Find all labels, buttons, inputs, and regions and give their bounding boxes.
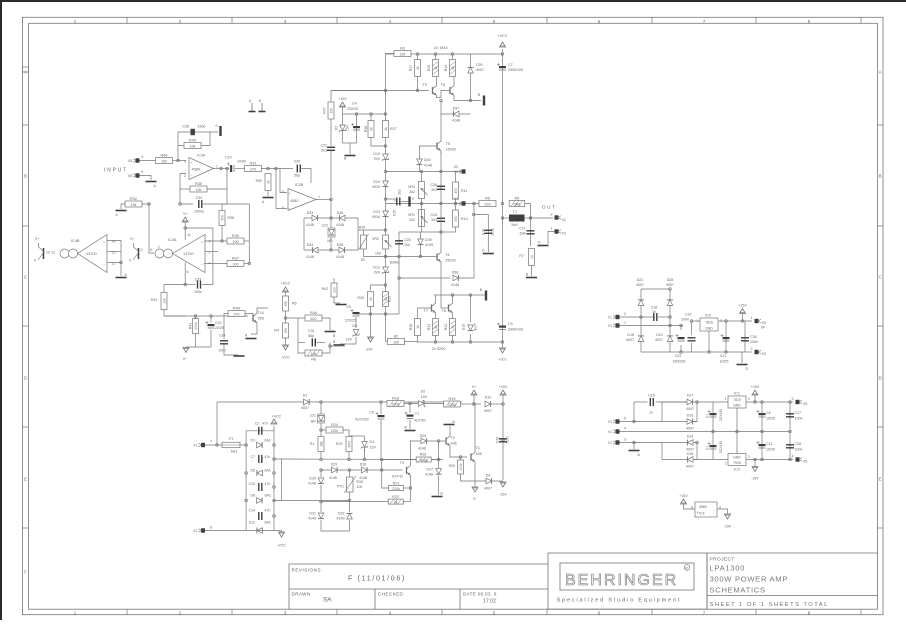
wire d2 diode row xyxy=(404,403,430,405)
svg-text:220p: 220p xyxy=(490,228,494,236)
wire r41 lead xyxy=(195,316,197,319)
wire r41 bot lead xyxy=(195,334,197,348)
power +VCC arrow xyxy=(500,42,506,47)
junction c9 top xyxy=(380,401,383,404)
svg-text:220/25: 220/25 xyxy=(345,319,356,323)
op-amp IC2A xyxy=(189,158,214,180)
junction R35 right xyxy=(226,167,229,170)
diode D4 zener xyxy=(361,442,368,449)
svg-text:R21: R21 xyxy=(393,481,400,485)
junction ladder b xyxy=(245,472,248,475)
junction bus rail b xyxy=(469,294,472,297)
svg-text:D: D xyxy=(746,367,749,371)
resistor R21 xyxy=(389,481,404,491)
power V- arrow xyxy=(183,348,189,353)
svg-text:R40: R40 xyxy=(233,306,240,310)
diode D19 3V9 xyxy=(382,154,389,161)
wire d21 bot lead xyxy=(669,345,671,352)
capacitor C6 10/25 xyxy=(757,410,766,417)
diode D29 xyxy=(332,467,338,473)
capacitor C17 6n8 xyxy=(527,231,535,234)
svg-text:X2: X2 xyxy=(562,218,566,222)
junction C19 tap xyxy=(472,213,475,216)
wire R2 right xyxy=(405,341,418,343)
wire -VCC rail vertical xyxy=(502,49,504,348)
svg-text:C26: C26 xyxy=(430,183,437,187)
svg-text:X1: X1 xyxy=(608,316,612,320)
wire c19b right xyxy=(656,401,688,403)
capacitor C14 47n xyxy=(259,512,262,520)
wire C17 col xyxy=(530,218,532,246)
wire r29 bottom xyxy=(348,452,350,460)
wire X1-6 row xyxy=(205,530,246,532)
wire T4 collector up xyxy=(440,232,442,250)
svg-text:-VCC: -VCC xyxy=(277,544,286,548)
wire R2 left xyxy=(386,341,388,343)
wire c20 lead xyxy=(210,316,212,323)
svg-text:C1: C1 xyxy=(706,446,710,450)
resistor R14 xyxy=(444,60,456,77)
svg-text:220k: 220k xyxy=(392,402,400,406)
junction bias row c25 xyxy=(398,255,401,258)
svg-text:+15V: +15V xyxy=(338,97,347,101)
svg-text:10k: 10k xyxy=(190,144,196,148)
svg-text:100n: 100n xyxy=(194,290,202,294)
svg-text:C20: C20 xyxy=(215,321,221,325)
junction C17 top xyxy=(529,217,532,220)
wire d16 row xyxy=(662,421,697,423)
svg-text:C25: C25 xyxy=(404,238,411,242)
wire d18 col xyxy=(640,317,642,345)
svg-text:6A2: 6A2 xyxy=(265,439,271,443)
wire c21 col xyxy=(725,321,727,352)
svg-text:+: + xyxy=(201,241,203,245)
resistor R16 xyxy=(409,319,421,336)
wire d29 row xyxy=(321,469,403,471)
svg-text:T1: T1 xyxy=(476,446,480,450)
capacitor C24 3n3 xyxy=(437,218,445,221)
wire c11 col xyxy=(761,432,763,460)
wire R12 top xyxy=(452,316,454,319)
wire C26 col xyxy=(440,172,442,204)
svg-text:X2: X2 xyxy=(562,232,566,236)
svg-text:C1: C1 xyxy=(415,412,420,416)
wire R43 bottom xyxy=(334,297,340,303)
svg-text:C5: C5 xyxy=(346,305,351,309)
resistor R40 xyxy=(228,306,245,316)
junction d21 mid xyxy=(669,324,672,327)
svg-text:X1: X1 xyxy=(608,441,612,445)
wire r21 left xyxy=(382,460,389,489)
wire psu1 row a xyxy=(620,316,656,318)
svg-text:220r: 220r xyxy=(331,429,339,433)
svg-text:R5: R5 xyxy=(514,196,519,200)
svg-text:T8: T8 xyxy=(441,83,445,87)
wire main rail x385 xyxy=(385,91,387,342)
junction IC2B out xyxy=(330,198,333,201)
wire psu1 gnd stub xyxy=(741,352,743,363)
svg-text:3n3: 3n3 xyxy=(431,188,437,192)
wire c16 right xyxy=(658,316,670,318)
svg-text:100: 100 xyxy=(333,287,337,293)
page edge top xyxy=(0,0,906,2)
svg-text:2200/35: 2200/35 xyxy=(719,409,723,421)
resistor R13 xyxy=(427,319,439,336)
wire R14 top xyxy=(452,54,454,60)
regulator IC1 7815 xyxy=(728,396,746,408)
svg-text:2k: 2k xyxy=(451,66,455,70)
wire ladder top xyxy=(246,430,274,432)
wire mid X3 row xyxy=(386,171,461,173)
wire VR3 col xyxy=(421,172,423,204)
svg-text:3V9: 3V9 xyxy=(374,271,380,275)
svg-text:4007: 4007 xyxy=(476,68,484,72)
diode D24 xyxy=(383,181,389,187)
svg-text:1: 1 xyxy=(216,165,218,169)
junction R6 R4 xyxy=(284,317,287,320)
wire R31 right xyxy=(262,168,294,170)
svg-text:4580: 4580 xyxy=(290,199,298,203)
svg-text:15033: 15033 xyxy=(445,259,456,263)
wire gnd stub VAS xyxy=(349,143,351,154)
svg-text:4148: 4148 xyxy=(306,223,314,227)
svg-text:C: C xyxy=(24,275,27,280)
junction bottom bus 3 xyxy=(469,341,472,344)
svg-text:BN: BN xyxy=(311,420,316,424)
junction prot row r29 xyxy=(348,458,351,461)
diode D25 xyxy=(667,300,673,306)
net flag D top xyxy=(259,103,266,112)
ground A r32 xyxy=(116,210,127,212)
wire LD2 col xyxy=(330,218,332,228)
svg-text:+15V: +15V xyxy=(738,304,747,308)
thermistor R39 xyxy=(361,235,367,249)
svg-text:0: 0 xyxy=(216,124,218,128)
power +VCC arrow prot xyxy=(271,419,277,424)
wire c36 col xyxy=(744,321,746,352)
svg-text:X5: X5 xyxy=(762,321,766,325)
wire C24 col xyxy=(440,204,442,233)
svg-text:+15V: +15V xyxy=(679,494,688,498)
wire r20 top xyxy=(460,457,462,460)
svg-text:6: 6 xyxy=(210,526,212,530)
svg-text:R36: R36 xyxy=(228,216,235,220)
junction L1 C17 xyxy=(529,217,532,220)
svg-text:R46: R46 xyxy=(161,153,168,157)
wire d18 bot lead xyxy=(640,345,642,352)
svg-text:3: 3 xyxy=(748,455,750,459)
svg-text:10k: 10k xyxy=(163,298,167,304)
svg-text:A06: A06 xyxy=(451,442,457,446)
svg-text:LPA1300: LPA1300 xyxy=(710,564,746,573)
svg-text:X3: X3 xyxy=(454,165,458,169)
svg-text:-: - xyxy=(714,509,715,513)
connector X2 pin2 xyxy=(551,213,562,220)
ground B VAS xyxy=(345,155,356,157)
svg-text:D9: D9 xyxy=(486,474,491,478)
frame row ticks right xyxy=(877,124,883,126)
wire R44 row xyxy=(286,317,306,319)
svg-text:C30: C30 xyxy=(294,160,301,164)
wire c15 col xyxy=(712,432,714,460)
ground A input xyxy=(146,181,157,183)
svg-text:6n8: 6n8 xyxy=(520,232,526,236)
net bar 0 mid xyxy=(408,197,410,207)
wire T4 base row xyxy=(399,256,437,258)
junction c11 top xyxy=(761,430,764,433)
wire t1 emitter xyxy=(474,464,476,481)
diode D28 xyxy=(362,467,368,473)
junction bias vr2 xyxy=(384,255,387,258)
wire D7 col xyxy=(342,114,344,143)
wire t2 base col xyxy=(438,441,440,460)
capacitor C34 100n xyxy=(220,341,228,344)
svg-text:5: 5 xyxy=(624,417,626,421)
junction loop node xyxy=(179,203,182,206)
LED LD2 xyxy=(328,228,335,237)
wire R39 top lead xyxy=(363,230,365,235)
svg-text:10 12: 10 12 xyxy=(46,251,55,255)
svg-text:VR1: VR1 xyxy=(408,213,415,217)
svg-text:C36: C36 xyxy=(750,335,757,339)
junction psu2 a xyxy=(633,420,636,423)
wire c1 gnd xyxy=(409,420,411,430)
wire psu2 +15 stub xyxy=(754,395,756,402)
resistor R39b xyxy=(227,234,244,244)
connector X1 psu2 a xyxy=(608,419,620,424)
wire IC4A pin6 down xyxy=(184,262,186,285)
wire R42 bottom xyxy=(164,310,186,317)
resistor R24 xyxy=(326,423,343,433)
wire ic2 out xyxy=(746,459,793,461)
junction D38 row xyxy=(398,277,401,280)
wire IC4A pin3 xyxy=(204,240,227,242)
junction d25 top xyxy=(669,288,672,291)
svg-text:0: 0 xyxy=(412,197,414,201)
wire R28 top lead xyxy=(370,114,372,121)
junction R31 R30 xyxy=(267,167,270,170)
svg-text:C21: C21 xyxy=(720,354,727,358)
wire r22 right xyxy=(403,501,410,503)
svg-text:0: 0 xyxy=(34,259,36,263)
behringer logo frame xyxy=(560,563,694,590)
project box xyxy=(707,553,877,609)
diode D18 xyxy=(638,336,644,342)
frame column ticks bottom xyxy=(126,609,128,615)
svg-text:R14: R14 xyxy=(444,65,448,72)
wire psu2 row c xyxy=(620,442,663,444)
svg-text:270: 270 xyxy=(250,167,256,171)
resistor R20 xyxy=(458,460,464,474)
wire IC4A pin11 xyxy=(184,222,186,240)
svg-text:8: 8 xyxy=(691,506,693,510)
wire fb up xyxy=(178,146,184,161)
ground d27 xyxy=(432,496,443,498)
wire +15V node row xyxy=(343,113,386,115)
capacitor C11 10/25 xyxy=(757,441,766,448)
svg-text:10k: 10k xyxy=(311,352,317,356)
svg-text:E: E xyxy=(24,477,27,482)
wire c13 col xyxy=(712,402,714,432)
svg-text:15V: 15V xyxy=(346,124,350,131)
svg-text:C33: C33 xyxy=(195,278,202,282)
svg-text:C10: C10 xyxy=(225,156,232,160)
svg-text:4007: 4007 xyxy=(686,407,694,411)
wire psu2 plus rail xyxy=(697,401,728,403)
junction bot bus r26 xyxy=(369,313,372,316)
svg-text:C16: C16 xyxy=(651,306,658,310)
capacitor C9 4u7/250 xyxy=(376,412,385,419)
junction c20 top xyxy=(210,315,213,318)
ground r43 xyxy=(336,304,347,306)
LED LD1 xyxy=(318,414,325,423)
svg-text:10/25: 10/25 xyxy=(720,360,729,364)
svg-text:100n: 100n xyxy=(795,448,803,452)
wire R46 to IC2A+ xyxy=(173,160,187,162)
wire ic1 out xyxy=(746,401,793,403)
svg-text:100n: 100n xyxy=(218,349,226,353)
net flag A top xyxy=(249,103,256,112)
svg-text:15V: 15V xyxy=(346,338,353,342)
wire IC2B- stub xyxy=(276,169,287,209)
svg-text:R35: R35 xyxy=(195,182,202,186)
junction r28 main row xyxy=(380,458,383,461)
svg-text:C24: C24 xyxy=(430,213,437,217)
svg-text:CHECKED: CHECKED xyxy=(378,592,404,597)
wire L1 right lead xyxy=(525,217,531,219)
svg-text:4149: 4149 xyxy=(337,517,345,521)
svg-text:100k: 100k xyxy=(459,463,463,471)
svg-text:C22: C22 xyxy=(675,354,682,358)
wire ic5 in xyxy=(692,320,701,322)
wire bias bus y256 xyxy=(364,249,400,257)
wire r22 feed row xyxy=(321,501,388,503)
junction C26 row xyxy=(440,170,443,173)
connector X5 input b xyxy=(128,173,140,178)
junction ladder e xyxy=(273,486,276,489)
junction psu2 c xyxy=(633,441,636,444)
svg-text:R8: R8 xyxy=(311,358,316,362)
pot VR1 xyxy=(419,210,428,227)
wire R8 right xyxy=(322,343,330,354)
wire C22 bottom to IC2B out col xyxy=(330,151,332,200)
wire C25a to 0 bar xyxy=(401,201,408,203)
wire R36 bottom xyxy=(221,226,223,242)
svg-text:3: 3 xyxy=(748,397,750,401)
wire R35 left xyxy=(180,188,190,190)
wire d31 bottom xyxy=(321,520,350,531)
wire d27 col xyxy=(438,460,440,469)
resistor R36 xyxy=(219,211,225,226)
junction R36 pin3 xyxy=(221,240,224,243)
svg-text:4007: 4007 xyxy=(474,323,478,331)
svg-text:R30: R30 xyxy=(256,179,262,183)
net bar B lower xyxy=(485,291,487,301)
op-amp IC4B triangle xyxy=(78,235,108,273)
capacitor C30 56p xyxy=(297,165,300,173)
svg-text:1k5: 1k5 xyxy=(393,340,399,344)
svg-text:17:02: 17:02 xyxy=(483,599,496,605)
op-amp IC2B xyxy=(288,189,316,211)
resistor R27b xyxy=(383,121,389,138)
wire IC2B+ stub xyxy=(280,169,287,193)
wire R32 node down xyxy=(149,204,154,253)
svg-text:B: B xyxy=(24,174,27,179)
svg-text:R31: R31 xyxy=(250,161,257,165)
svg-text:1n: 1n xyxy=(649,411,653,415)
transistor T2 xyxy=(446,434,450,449)
op-amp IC4A triangle xyxy=(173,235,206,273)
connector X5 input a xyxy=(128,158,140,163)
ground t2 top xyxy=(444,424,455,426)
junction c16 right xyxy=(669,316,672,319)
connector X1 psu2 c xyxy=(608,440,620,445)
junction d28 right xyxy=(348,469,351,472)
svg-text:4U7/250: 4U7/250 xyxy=(355,418,369,422)
junction D34 row xyxy=(330,249,333,252)
diode D22 xyxy=(638,300,644,306)
resistor R44 xyxy=(305,311,322,321)
wire F1 left junction xyxy=(216,444,218,447)
svg-text:470: 470 xyxy=(454,188,458,194)
svg-text:T9: T9 xyxy=(423,83,427,87)
ground bar ic4a xyxy=(234,355,245,357)
svg-text:1n: 1n xyxy=(652,310,656,314)
resistor R4 xyxy=(283,323,289,338)
svg-text:T10: T10 xyxy=(258,311,265,315)
svg-text:B: B xyxy=(879,174,882,179)
wire C10 to R31 xyxy=(235,168,245,170)
wire C25b col xyxy=(398,232,400,257)
svg-text:T6: T6 xyxy=(442,309,446,313)
svg-text:D35: D35 xyxy=(337,243,344,247)
capacitor C7b 47n xyxy=(259,455,262,463)
svg-text:47n: 47n xyxy=(265,509,271,513)
svg-text:X5: X5 xyxy=(762,352,766,356)
svg-text:4007: 4007 xyxy=(484,409,492,413)
svg-text:MD: MD xyxy=(327,239,333,243)
wire top row y402 xyxy=(217,401,282,403)
svg-text:4007: 4007 xyxy=(686,448,694,452)
junction R15 top xyxy=(434,53,437,56)
junction c22 top xyxy=(680,324,683,327)
wire R15 top xyxy=(435,54,437,60)
svg-text:D25: D25 xyxy=(667,278,674,282)
diode D2 zener xyxy=(419,400,426,407)
diode D7 zener xyxy=(339,125,346,132)
svg-text:D17: D17 xyxy=(687,394,694,398)
svg-text:2k2: 2k2 xyxy=(409,190,415,194)
svg-text:C2: C2 xyxy=(255,422,260,426)
svg-text:C14: C14 xyxy=(249,509,255,513)
svg-text:C: C xyxy=(879,275,882,280)
wire c28 col xyxy=(789,432,791,460)
svg-text:10k: 10k xyxy=(131,203,137,207)
svg-text:6: 6 xyxy=(142,155,144,159)
wire C31 right xyxy=(317,342,326,344)
junction d14 d15 xyxy=(696,441,699,444)
wire R13 bottom xyxy=(435,336,437,343)
ground A psu2 xyxy=(629,450,640,452)
wire R12 bottom xyxy=(452,336,454,343)
svg-text:R28: R28 xyxy=(420,453,426,457)
svg-text:D4: D4 xyxy=(370,440,375,444)
wire IC2B out col down xyxy=(330,200,332,219)
wire c20 bot lead2 xyxy=(210,330,212,348)
junction c30 row xyxy=(275,167,278,170)
svg-text:5: 5 xyxy=(150,248,152,252)
wire c35 bot xyxy=(691,343,693,352)
